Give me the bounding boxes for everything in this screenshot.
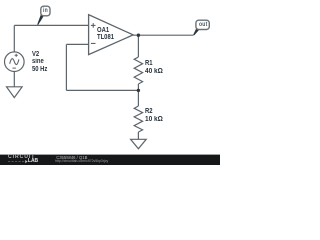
source value 50 Hz	[32, 66, 47, 73]
watermark logo underline	[8, 161, 25, 163]
wire R1 bottom to junction	[137, 84, 139, 90]
resistor value 40 kOhm	[145, 68, 163, 75]
wire inverting input stub	[66, 43, 88, 45]
watermark logo arrow	[25, 160, 27, 163]
node flag in: tail	[37, 15, 43, 25]
node output junction dot	[137, 34, 140, 37]
node flag in: bubble	[41, 6, 50, 16]
wire in node down to V2 top	[13, 25, 15, 52]
resistor value 10 kOhm	[145, 116, 163, 123]
wire V2 bottom to ground	[13, 71, 15, 86]
resistor R1 40k zigzag	[134, 57, 142, 84]
node feedback junction dot	[137, 89, 140, 92]
flag label out	[199, 22, 208, 28]
op-amp value TL081	[97, 34, 114, 41]
wire op-amp output to out flag	[133, 34, 194, 36]
ground under V2	[7, 87, 23, 98]
wire feedback vertical	[65, 44, 67, 90]
watermark bar	[0, 155, 220, 165]
node flag out: tail	[193, 28, 199, 35]
ground under R2	[131, 139, 147, 149]
wire in flag to op-amp non-inverting input	[14, 24, 88, 26]
node flag out: bubble	[196, 20, 209, 29]
watermark logo text CIRCUIT	[8, 155, 35, 161]
op-amp label OA1	[97, 27, 109, 34]
voltage source V2 sine 50 Hz	[5, 52, 25, 72]
op-amp U1 OA1 TL081 triangle body	[89, 15, 134, 55]
resistor R2 10k zigzag	[134, 106, 142, 132]
wire feedback horizontal to R1/R2 junction	[66, 89, 138, 91]
resistor label R1	[145, 60, 153, 67]
wire junction to R2 top	[137, 90, 139, 106]
watermark id text	[56, 156, 87, 160]
watermark logo text LAB	[28, 159, 38, 164]
wire R2 bottom to ground	[137, 132, 139, 139]
source value sine	[32, 58, 44, 65]
wire output node down to R1	[137, 35, 139, 57]
source label V2	[32, 51, 39, 58]
resistor label R2	[145, 108, 153, 115]
flag label in	[43, 8, 48, 14]
watermark url text	[55, 160, 108, 164]
